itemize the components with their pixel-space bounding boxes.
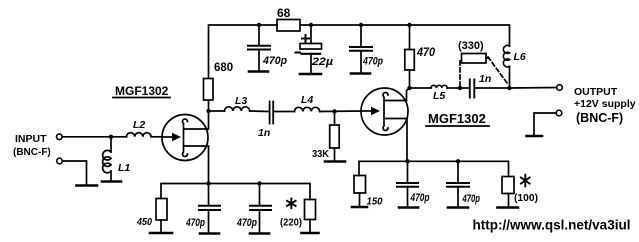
- label MGF1302 second: [426, 111, 489, 126]
- wire shield to ground: [62, 161, 86, 185]
- resistor 150: [354, 176, 366, 207]
- svg-text:(BNC-F): (BNC-F): [13, 147, 51, 158]
- ground R100: [498, 206, 519, 209]
- ground cap b: [250, 232, 269, 235]
- svg-text:MGF1302: MGF1302: [428, 111, 486, 126]
- inductor L2: [111, 133, 162, 137]
- asterisk 220: [287, 199, 296, 209]
- wire dashed diagonal: [488, 57, 509, 85]
- node dashed-junction: [458, 86, 462, 90]
- svg-text:470p: 470p: [410, 192, 430, 204]
- wire +12V to ground: [534, 113, 556, 136]
- ground cap c: [399, 206, 418, 209]
- resistor 680: [204, 79, 214, 101]
- ground cap d: [448, 206, 468, 209]
- svg-text:(BNC-F): (BNC-F): [576, 111, 623, 125]
- wire top supply rail left segment: [209, 25, 278, 111]
- inductor L1: [103, 137, 111, 181]
- ground +12V: [527, 135, 543, 138]
- svg-text:33K: 33K: [312, 149, 330, 160]
- ground 22u: [300, 73, 321, 76]
- node rail-470p1: [257, 23, 261, 27]
- svg-text:680: 680: [214, 62, 233, 74]
- terminal +12V: [556, 110, 562, 116]
- terminal input: [57, 134, 63, 140]
- svg-text:http://www.qsl.net/va3iul: http://www.qsl.net/va3iul: [473, 217, 631, 233]
- svg-text:OUTPUT: OUTPUT: [574, 86, 618, 98]
- asterisk 100: [521, 175, 530, 187]
- svg-text:L3: L3: [235, 95, 247, 107]
- ground 33K: [325, 160, 345, 163]
- capacitor 1n interstage: [270, 102, 274, 124]
- inductor L4: [273, 107, 361, 111]
- transistor Q1 MGF1302: [162, 111, 209, 184]
- capacitor 470p bypass 2: [350, 25, 372, 73]
- wire output: [510, 87, 557, 90]
- capacitor 470p source2 b: [447, 161, 469, 207]
- capacitor 1n output: [460, 80, 510, 98]
- svg-text:MGF1302: MGF1302: [115, 84, 169, 98]
- wire input: [62, 136, 111, 138]
- svg-text:L2: L2: [133, 119, 145, 131]
- node gate2: [332, 109, 336, 113]
- ground R220: [302, 232, 319, 235]
- resistor 68: [277, 20, 300, 32]
- ground cap470p1: [249, 70, 268, 73]
- svg-text:470p: 470p: [185, 217, 205, 229]
- svg-text:L5: L5: [433, 90, 445, 102]
- ground R450: [150, 232, 172, 235]
- inductor L5: [410, 85, 461, 88]
- transistor Q2 MGF1302: [361, 88, 410, 161]
- ground shield: [77, 184, 98, 187]
- svg-text:INPUT: INPUT: [15, 133, 47, 145]
- resistor 33K: [330, 112, 340, 162]
- svg-text:150: 150: [367, 197, 383, 208]
- inductor L6: [503, 45, 509, 87]
- svg-text:+12V supply: +12V supply: [574, 98, 636, 110]
- label MGF1302 first: [113, 84, 170, 98]
- resistor 450: [156, 199, 167, 233]
- wire source bus 2: [359, 161, 509, 176]
- node drain1: [206, 109, 210, 113]
- svg-text:L1: L1: [118, 162, 130, 174]
- node output-junction: [507, 86, 511, 90]
- svg-text:68: 68: [277, 6, 291, 20]
- svg-text:1n: 1n: [479, 73, 491, 85]
- capacitor 470p source1 a: [199, 184, 220, 234]
- svg-text:450: 450: [136, 217, 152, 228]
- terminal input shield: [57, 158, 63, 164]
- node source1: [206, 181, 210, 185]
- plus mark: [302, 35, 309, 42]
- node rail-470p2: [359, 23, 363, 27]
- svg-text:470p: 470p: [362, 56, 383, 68]
- ground R150: [352, 206, 367, 209]
- svg-text:L4: L4: [301, 94, 313, 106]
- minus mark: [296, 52, 301, 54]
- resistor (220) optional: [305, 200, 316, 233]
- svg-text:L6: L6: [514, 51, 526, 63]
- ground cap a: [200, 232, 219, 235]
- node drain2: [407, 86, 411, 90]
- svg-text:470: 470: [416, 47, 436, 59]
- svg-text:470p: 470p: [236, 217, 257, 229]
- wire top supply rail right segment: [300, 25, 510, 46]
- svg-text:470p: 470p: [262, 55, 287, 67]
- inductor L3: [209, 107, 270, 112]
- svg-text:470p: 470p: [462, 193, 480, 205]
- svg-text:(330): (330): [458, 40, 484, 52]
- node bus2 cap2: [456, 159, 460, 163]
- capacitor 22u electrolytic C+: [300, 25, 322, 74]
- ground cap470p2: [351, 72, 370, 75]
- capacitor 470p source1 b: [250, 184, 271, 234]
- resistor 470: [405, 25, 415, 88]
- terminal output: [557, 85, 563, 91]
- node bus2 source: [405, 159, 409, 163]
- resistor (330) optional: [460, 54, 489, 87]
- svg-text:22µ: 22µ: [311, 56, 334, 68]
- capacitor 470p source2 a: [397, 161, 418, 207]
- resistor (100) optional: [502, 177, 514, 208]
- node rail-470: [407, 23, 411, 27]
- capacitor 470p bypass 1: [248, 25, 270, 71]
- svg-text:(220): (220): [280, 218, 302, 229]
- wire source bus 1: [161, 184, 310, 200]
- ground L1: [102, 180, 121, 183]
- svg-text:(100): (100): [514, 192, 538, 204]
- node input-L1L2: [109, 135, 113, 139]
- node bus1 cap2: [257, 181, 261, 185]
- node rail-22u: [309, 23, 313, 27]
- svg-text:1n: 1n: [258, 127, 270, 139]
